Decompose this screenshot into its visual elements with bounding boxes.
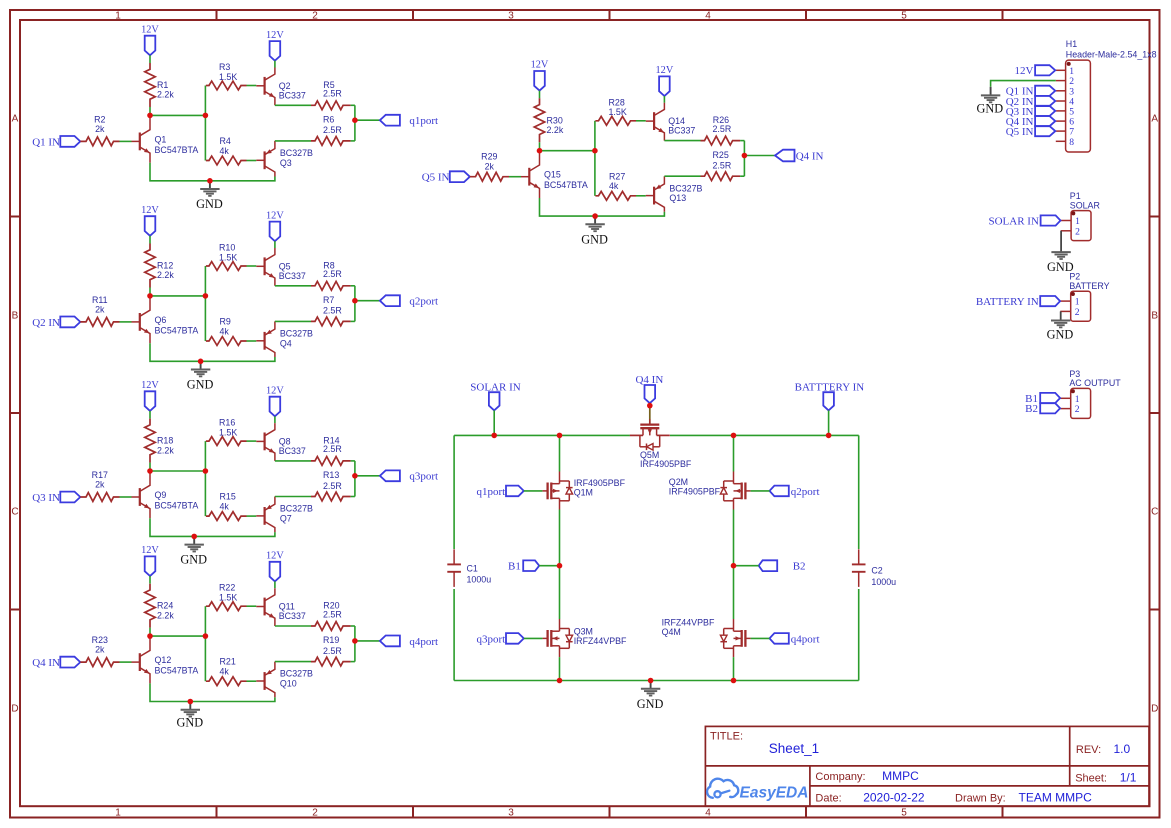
svg-text:TITLE:: TITLE:	[710, 731, 743, 743]
svg-text:R16: R16	[219, 418, 235, 428]
wire	[539, 142, 541, 150]
svg-text:R1: R1	[157, 80, 168, 90]
svg-text:12V: 12V	[141, 205, 159, 216]
svg-text:Q3: Q3	[280, 158, 292, 168]
svg-text:R12: R12	[157, 261, 173, 271]
resistor R9 4k	[206, 337, 247, 346]
svg-text:A: A	[1151, 114, 1158, 125]
svg-text:BC547BTA: BC547BTA	[155, 500, 199, 510]
wire output column	[354, 626, 356, 662]
svg-text:R30: R30	[547, 115, 563, 125]
svg-text:2.5R: 2.5R	[323, 481, 342, 491]
svg-text:12V: 12V	[656, 65, 674, 76]
ground	[200, 361, 202, 369]
svg-text:1: 1	[115, 11, 121, 22]
port q2port	[770, 486, 789, 497]
svg-text:Sheet:: Sheet:	[1075, 773, 1107, 785]
svg-text:3: 3	[508, 11, 514, 22]
resistor R15 4k	[206, 512, 247, 521]
wire	[524, 490, 543, 492]
wire	[149, 628, 151, 636]
resistor R27 4k	[595, 191, 636, 200]
ground (H-bridge)	[650, 681, 652, 689]
port Q5 IN (H1 pin 7)	[1035, 126, 1055, 136]
port Q3 IN	[60, 492, 80, 503]
wire junction row	[150, 295, 205, 297]
wire	[275, 661, 311, 663]
svg-text:Drawn By:: Drawn By:	[955, 793, 1006, 805]
transistor Q7 BC327B (PNP)	[264, 507, 266, 525]
frame column ticks bottom	[216, 806, 218, 817]
port Q3 IN (H1 pin 5)	[1035, 106, 1055, 116]
svg-text:R2: R2	[94, 114, 105, 124]
wire branch column	[204, 266, 206, 341]
svg-text:B: B	[12, 311, 19, 322]
wire	[274, 416, 276, 423]
svg-text:R3: R3	[219, 62, 230, 72]
transistor Q9 BC547BTA (NPN)	[139, 488, 141, 506]
svg-text:R4: R4	[220, 136, 231, 146]
port B2	[759, 560, 778, 571]
svg-text:2.5R: 2.5R	[323, 646, 342, 656]
svg-text:1.5K: 1.5K	[219, 427, 237, 437]
transistor Q11 BC337 (NPN)	[264, 598, 266, 616]
transistor Q10 BC327B (PNP)	[264, 672, 266, 690]
wire	[351, 320, 355, 322]
transistor Q15 BC547BTA (NPN)	[528, 168, 530, 186]
port q1port	[506, 486, 524, 497]
svg-text:q3port: q3port	[476, 633, 505, 645]
svg-text:Q2: Q2	[279, 81, 291, 91]
MOSFET Q3M IRFZ44VPBF (N-ch)	[542, 637, 547, 639]
power flag 12V (VCC4a)	[145, 556, 156, 576]
power flag 12V (VCC2a)	[145, 216, 156, 236]
svg-text:12V: 12V	[266, 551, 284, 562]
svg-text:Header-Male-2.54_1x8: Header-Male-2.54_1x8	[1066, 50, 1157, 60]
svg-text:Q2 IN: Q2 IN	[32, 317, 60, 329]
title block row divider 1	[705, 765, 1149, 767]
wire	[493, 410, 495, 435]
wire	[351, 625, 355, 627]
svg-text:2: 2	[1075, 404, 1080, 415]
svg-text:2.5R: 2.5R	[323, 609, 342, 619]
svg-text:IRFZ44VPBF: IRFZ44VPBF	[574, 636, 627, 646]
wire	[664, 175, 700, 177]
svg-text:Q4 IN: Q4 IN	[32, 657, 60, 669]
H1 pin stubs	[1056, 69, 1066, 71]
wire left branch column	[559, 435, 561, 471]
port Q2 IN (H1 pin 4)	[1035, 96, 1055, 106]
svg-text:q3port: q3port	[409, 471, 438, 483]
svg-text:Q5: Q5	[279, 261, 291, 271]
svg-text:4k: 4k	[220, 146, 230, 156]
wire output column	[354, 461, 356, 497]
port q1port	[380, 115, 400, 126]
svg-text:Q11: Q11	[279, 602, 295, 612]
resistor R26 2.5R	[701, 136, 741, 145]
power flag 12V (H1 pin 1)	[1035, 65, 1055, 75]
connector P2 BATTERY	[1071, 291, 1091, 321]
capacitor C2 1000u (polarized)	[852, 563, 866, 565]
svg-text:Q4: Q4	[280, 338, 292, 348]
svg-text:IRF4905PBF: IRF4905PBF	[640, 459, 692, 469]
wire junction row	[540, 150, 595, 152]
port B1 (P3)	[1040, 393, 1060, 403]
svg-text:BC547BTA: BC547BTA	[155, 325, 199, 335]
wire	[351, 285, 355, 287]
svg-text:GND: GND	[1047, 328, 1074, 342]
transistor Q13 BC327B (PNP)	[653, 187, 655, 205]
svg-text:BC337: BC337	[668, 126, 695, 136]
svg-text:BC337: BC337	[279, 446, 306, 456]
svg-text:C2: C2	[871, 565, 882, 575]
transistor Q6 BC547BTA (NPN)	[139, 313, 141, 331]
wire	[751, 637, 770, 639]
svg-text:q2port: q2port	[409, 296, 438, 308]
svg-text:q1port: q1port	[409, 115, 438, 127]
svg-text:1.5K: 1.5K	[609, 107, 627, 117]
port SOLAR IN (net flag)	[489, 392, 500, 410]
svg-text:12V: 12V	[141, 380, 159, 391]
svg-text:C: C	[1151, 507, 1158, 518]
svg-text:R21: R21	[220, 657, 236, 667]
wire	[351, 104, 355, 106]
wire	[275, 140, 311, 142]
wire junction row	[150, 635, 205, 637]
wire	[539, 565, 559, 567]
svg-text:4k: 4k	[220, 667, 230, 677]
wire	[636, 120, 646, 122]
MOSFET Q5M IRF4905PBF (P-ch, horizontal)	[649, 419, 651, 425]
power flag 12V (VCC3a)	[145, 391, 156, 411]
frame row ticks right	[1150, 216, 1160, 218]
svg-text:4k: 4k	[220, 501, 230, 511]
resistor R22 1.5K	[206, 602, 247, 611]
H-bridge junction dots	[491, 433, 497, 439]
svg-text:1.5K: 1.5K	[219, 252, 237, 262]
wire	[275, 625, 311, 627]
svg-text:R6: R6	[323, 115, 334, 125]
title block frame	[705, 726, 1149, 806]
wire	[734, 565, 759, 567]
svg-text:C: C	[11, 507, 18, 518]
svg-text:R29: R29	[481, 152, 497, 162]
wire output column	[743, 141, 745, 177]
svg-text:Q1M: Q1M	[574, 487, 593, 497]
svg-text:Q14: Q14	[668, 116, 685, 126]
ground	[594, 216, 596, 224]
power flag 12V (VCC5b)	[659, 76, 670, 96]
wire	[247, 605, 257, 607]
svg-text:GND: GND	[180, 553, 207, 567]
transistor Q3 BC327B (PNP)	[264, 151, 266, 169]
wire P2 pin 2 to ground	[1060, 311, 1062, 320]
svg-text:SOLAR IN: SOLAR IN	[470, 381, 520, 393]
wire	[275, 285, 311, 287]
svg-text:BATTERY IN: BATTERY IN	[976, 296, 1039, 308]
wire	[355, 640, 380, 642]
svg-text:2k: 2k	[95, 124, 105, 134]
svg-text:4k: 4k	[220, 326, 230, 336]
svg-text:4: 4	[705, 808, 711, 819]
wire	[524, 637, 543, 639]
resistor R5 2.5R	[311, 101, 351, 110]
svg-text:B2: B2	[1025, 403, 1038, 415]
svg-text:Q5 IN: Q5 IN	[422, 172, 450, 184]
wire	[274, 241, 276, 248]
wire	[539, 91, 541, 99]
svg-text:Q9: Q9	[155, 490, 167, 500]
connector P3 AC OUTPUT	[1071, 388, 1091, 418]
svg-text:2k: 2k	[95, 305, 105, 315]
resistor R25 2.5R	[701, 172, 741, 181]
svg-text:Sheet_1: Sheet_1	[769, 741, 819, 756]
svg-text:C1: C1	[467, 564, 478, 574]
svg-text:Q10: Q10	[280, 679, 297, 689]
wire	[664, 140, 700, 142]
svg-text:Q4M: Q4M	[662, 627, 681, 637]
svg-text:B1: B1	[508, 561, 521, 573]
P3 pin1 marker	[1071, 389, 1075, 393]
resistor R21 4k	[206, 677, 247, 686]
svg-text:GND: GND	[176, 715, 203, 729]
wire output column	[354, 286, 356, 322]
resistor R23 2k	[80, 658, 119, 667]
resistor R10 1.5K	[206, 262, 247, 271]
svg-text:D: D	[11, 704, 18, 715]
MOSFET Q4M IRFZ44VPBF (N-ch, mirrored)	[745, 637, 750, 639]
svg-text:Q4 IN: Q4 IN	[796, 150, 824, 162]
wire	[247, 340, 257, 342]
wire P1 pin 2 to ground	[1060, 231, 1062, 252]
svg-text:GND: GND	[196, 197, 223, 211]
svg-text:12V: 12V	[141, 24, 159, 35]
wire	[247, 265, 257, 267]
transistor Q14 BC337 (NPN)	[653, 112, 655, 130]
svg-text:GND: GND	[581, 232, 608, 246]
resistor R8 2.5R	[311, 281, 351, 290]
wire branch column	[204, 606, 206, 681]
wire left rail	[453, 435, 455, 549]
wire	[120, 321, 132, 323]
svg-text:2: 2	[1075, 226, 1080, 237]
power flag 12V (VCC5a)	[534, 71, 545, 91]
wire branch column	[204, 86, 206, 161]
ground (P2)	[1060, 319, 1062, 321]
svg-text:SOLAR IN: SOLAR IN	[988, 215, 1038, 227]
svg-text:GND: GND	[187, 378, 214, 392]
wire emitter to ground rail	[540, 198, 665, 216]
svg-text:BC547BTA: BC547BTA	[544, 180, 588, 190]
resistor R14 2.5R	[311, 457, 351, 466]
wire	[275, 460, 311, 462]
P1 pin1 marker	[1071, 211, 1075, 215]
resistor R7 2.5R	[311, 317, 351, 326]
svg-text:R11: R11	[92, 295, 108, 305]
svg-text:2: 2	[1075, 307, 1080, 318]
svg-text:Q1: Q1	[155, 134, 167, 144]
ground	[189, 702, 191, 710]
wire	[247, 85, 257, 87]
wire	[120, 496, 132, 498]
EasyEDA logo cloud	[707, 779, 738, 798]
MOSFET Q1M IRF4905PBF (P-ch)	[542, 490, 547, 492]
wire	[351, 140, 355, 142]
EasyEDA logo swirl	[714, 791, 720, 797]
svg-text:BC327B: BC327B	[280, 148, 313, 158]
svg-text:BATTTERY IN: BATTTERY IN	[795, 381, 865, 393]
wire	[149, 107, 151, 115]
port Q4 IN (H1 pin 6)	[1035, 116, 1055, 126]
svg-text:Q7: Q7	[280, 513, 292, 523]
wire	[149, 576, 151, 584]
resistor R2 2k	[80, 137, 119, 146]
power flag 12V (VCC1b)	[270, 41, 281, 61]
svg-text:2k: 2k	[95, 480, 105, 490]
resistor R28 1.5K	[595, 116, 636, 125]
svg-text:5: 5	[901, 808, 907, 819]
transistor Q2 BC337 (NPN)	[264, 77, 266, 95]
title block logo cell divider	[809, 766, 811, 806]
svg-text:12V: 12V	[1015, 65, 1034, 77]
svg-text:1/1: 1/1	[1120, 771, 1137, 785]
transistor Q8 BC337 (NPN)	[264, 433, 266, 451]
transistor Q4 BC327B (PNP)	[264, 332, 266, 350]
wire	[828, 410, 830, 435]
wire	[351, 496, 355, 498]
wire	[355, 300, 380, 302]
wire	[120, 140, 132, 142]
svg-text:B: B	[1151, 311, 1158, 322]
connector H1 Header-Male-2.54_1x8	[1066, 60, 1091, 152]
connector P1 SOLAR	[1071, 211, 1091, 241]
power flag 12V (VCC4b)	[270, 562, 281, 582]
svg-text:2.2k: 2.2k	[157, 445, 174, 455]
svg-text:q1port: q1port	[476, 486, 505, 498]
junction dots	[537, 148, 543, 154]
svg-text:SOLAR: SOLAR	[1070, 200, 1100, 210]
wire	[247, 160, 257, 162]
svg-text:Q1 IN: Q1 IN	[32, 136, 60, 148]
svg-text:Q15: Q15	[544, 170, 561, 180]
port Q4 IN	[775, 150, 795, 162]
junction dots	[147, 293, 153, 299]
P3 pin stubs	[1060, 397, 1070, 399]
wire H1 pin 2 to ground	[991, 81, 1056, 87]
svg-text:1.5K: 1.5K	[219, 593, 237, 603]
ground	[209, 181, 211, 189]
svg-text:2.2k: 2.2k	[547, 125, 564, 135]
port BATTERY IN (P2)	[1040, 296, 1060, 306]
svg-text:4k: 4k	[609, 181, 619, 191]
svg-text:R13: R13	[323, 470, 339, 480]
svg-text:BC327B: BC327B	[280, 329, 313, 339]
svg-text:BC327B: BC327B	[669, 183, 702, 193]
wire output column	[354, 105, 356, 141]
svg-text:R22: R22	[219, 583, 235, 593]
svg-text:BC337: BC337	[279, 611, 306, 621]
svg-text:TEAM MMPC: TEAM MMPC	[1019, 791, 1093, 805]
svg-text:2.2k: 2.2k	[157, 610, 174, 620]
svg-text:q4port: q4port	[409, 636, 438, 648]
svg-text:R24: R24	[157, 601, 173, 611]
svg-text:R23: R23	[92, 635, 108, 645]
resistor R29 2k	[470, 172, 509, 181]
svg-text:2.2k: 2.2k	[157, 90, 174, 100]
svg-text:R28: R28	[609, 97, 625, 107]
svg-text:2: 2	[312, 808, 318, 819]
svg-text:2.5R: 2.5R	[713, 161, 732, 171]
svg-text:Company:: Company:	[815, 771, 865, 783]
MOSFET Q2M IRF4905PBF (P-ch, mirrored)	[745, 490, 750, 492]
svg-text:Q3 IN: Q3 IN	[32, 492, 60, 504]
svg-text:B2: B2	[793, 561, 806, 573]
power flag 12V (VCC3b)	[270, 397, 281, 417]
port Q4 IN	[60, 657, 80, 668]
wire	[751, 490, 770, 492]
port Q1 IN (H1 pin 3)	[1035, 86, 1055, 96]
svg-text:Date:: Date:	[815, 793, 841, 805]
svg-text:R19: R19	[323, 635, 339, 645]
resistor R11 2k	[80, 318, 119, 327]
svg-text:5: 5	[901, 11, 907, 22]
port Q2 IN	[60, 317, 80, 328]
svg-text:IRF4905PBF: IRF4905PBF	[669, 486, 721, 496]
H1 pin1 marker	[1067, 62, 1071, 66]
power flag 12V (VCC1a)	[145, 36, 156, 56]
wire bottom rail	[454, 680, 859, 682]
port B2 (P3)	[1040, 403, 1060, 413]
frame column ticks top	[216, 10, 218, 20]
svg-text:Q5 IN: Q5 IN	[1006, 126, 1034, 138]
port q2port	[380, 295, 400, 306]
wire	[275, 104, 311, 106]
wire	[247, 440, 257, 442]
svg-text:8: 8	[1069, 137, 1074, 148]
svg-text:2: 2	[312, 11, 318, 22]
frame row ticks left	[10, 216, 20, 218]
resistor R4 4k	[206, 156, 247, 165]
svg-text:1000u: 1000u	[871, 577, 896, 587]
wire right rail	[858, 435, 860, 549]
wire branch column	[204, 441, 206, 516]
svg-text:2.5R: 2.5R	[323, 269, 342, 279]
wire	[355, 119, 380, 121]
svg-text:R18: R18	[157, 436, 173, 446]
transistor Q5 BC337 (NPN)	[264, 257, 266, 275]
resistor R17 2k	[80, 493, 119, 502]
junction dots	[147, 468, 153, 474]
svg-text:q4port: q4port	[791, 633, 820, 645]
port Q5 IN	[450, 171, 470, 182]
svg-text:BC547BTA: BC547BTA	[155, 666, 199, 676]
port Q1 IN	[60, 136, 80, 147]
svg-text:Q8: Q8	[279, 436, 291, 446]
wire	[275, 496, 311, 498]
transistor Q1 BC547BTA (NPN)	[139, 133, 141, 151]
resistor R18 2.2k	[145, 419, 155, 463]
svg-text:Q13: Q13	[669, 193, 686, 203]
P2 pin1 marker	[1071, 292, 1075, 296]
svg-text:2.5R: 2.5R	[323, 89, 342, 99]
wire branch column	[594, 121, 596, 196]
wire	[351, 460, 355, 462]
capacitor C1 1000u (polarized)	[447, 563, 461, 565]
svg-text:2.2k: 2.2k	[157, 270, 174, 280]
title block row divider 2	[810, 785, 1149, 787]
wire emitter to ground rail	[150, 163, 275, 181]
svg-text:R10: R10	[219, 243, 235, 253]
